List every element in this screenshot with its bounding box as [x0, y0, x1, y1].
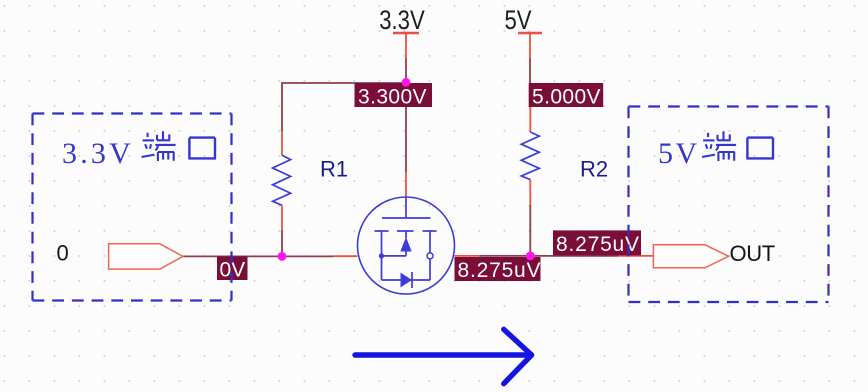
svg-text:3.300V: 3.300V — [358, 85, 427, 108]
svg-text:R2: R2 — [580, 157, 608, 182]
svg-text:8.275uV: 8.275uV — [556, 233, 640, 256]
power symbol 3.3V — [379, 6, 425, 58]
resistor R1 — [273, 131, 291, 230]
port 0 (input connector) — [109, 244, 183, 269]
probe label 3.300V — [355, 83, 433, 108]
probe label 0V — [217, 256, 248, 281]
wire R1 bottom to node — [281, 230, 283, 256]
wire MOSFET drain to OUT port — [455, 255, 480, 257]
label 3.3V端口 — [62, 131, 216, 170]
wire main net: port 0 to MOSFET source — [183, 255, 333, 257]
svg-text:0: 0 — [57, 241, 69, 266]
glyph 端 — [142, 131, 176, 161]
dashed port-group box 3.3V side — [33, 114, 232, 301]
wire R2 bottom to node — [529, 205, 531, 256]
wire 3.3V net vertical — [405, 58, 407, 83]
junction node gate/3.3V — [402, 78, 411, 87]
wire gate drop — [405, 83, 407, 172]
transistor Q1 N-MOSFET — [358, 197, 455, 294]
probe label 8.275uV lower — [455, 257, 542, 282]
svg-text:5.000V: 5.000V — [532, 85, 601, 108]
glyph 口 — [188, 138, 216, 159]
port OUT (output connector) — [653, 245, 728, 268]
svg-text:5V: 5V — [658, 137, 700, 170]
resistor R2 — [521, 107, 539, 205]
svg-text:3.3V: 3.3V — [379, 6, 425, 36]
svg-text:8.275uV: 8.275uV — [458, 259, 542, 282]
probe label 5.000V — [529, 83, 604, 108]
label 5V端口 — [658, 131, 774, 170]
wire 5V net vertical — [529, 58, 531, 83]
junction node R1/source — [278, 252, 287, 261]
svg-text:OUT: OUT — [730, 241, 775, 266]
svg-text:5V: 5V — [504, 6, 532, 36]
svg-text:R1: R1 — [320, 157, 348, 182]
flow arrow — [355, 329, 532, 383]
junction node R2/drain — [526, 252, 535, 261]
glyph 口 — [746, 138, 774, 159]
dashed port-group box 5V side — [629, 107, 829, 303]
probe label 8.275uV upper — [553, 230, 641, 256]
power symbol 5V — [504, 6, 542, 58]
glyph 端 — [702, 131, 736, 161]
wire 3.3V net: junction to R1 top — [282, 83, 406, 131]
svg-text:3.3V: 3.3V — [62, 137, 134, 170]
